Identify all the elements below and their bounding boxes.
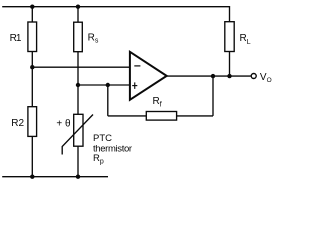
wire thermistor bottom lead to ground rail bbox=[77, 146, 79, 177]
label Rs bbox=[88, 33, 99, 45]
op-amp U1 bbox=[130, 52, 167, 100]
node junction output / feedback bbox=[211, 74, 215, 78]
svg-text:Rf: Rf bbox=[153, 96, 162, 109]
node junction output / RL bbox=[227, 74, 231, 78]
label R1 bbox=[10, 33, 22, 44]
resistor Rs bbox=[74, 22, 83, 52]
wire feedback riser from plus rail bbox=[107, 85, 109, 116]
wire ground rail bbox=[2, 176, 108, 178]
wire Rf right to feedback riser bbox=[177, 115, 213, 117]
svg-text:+ θ: + θ bbox=[56, 119, 71, 130]
node junction R1/R2 divider tap bbox=[30, 65, 34, 69]
thermistor Rp diagonal stroke bbox=[62, 115, 93, 155]
resistor Rf bbox=[146, 112, 176, 121]
node junction feedback on plus rail bbox=[106, 83, 110, 87]
resistor R1 bbox=[28, 22, 37, 52]
wire op-amp output to terminal bbox=[167, 75, 251, 77]
wire top supply rail bbox=[2, 7, 229, 22]
svg-text:PTC: PTC bbox=[93, 133, 112, 144]
resistor RL bbox=[225, 22, 234, 52]
node junction top rail / R1 bbox=[30, 5, 34, 9]
wire Rs top lead bbox=[77, 7, 79, 23]
wire feedback to Rf left bbox=[108, 115, 147, 117]
label Rf bbox=[153, 96, 162, 109]
label + theta bbox=[56, 119, 71, 130]
op-amp inverting input symbol - bbox=[134, 65, 140, 67]
wire feedback riser to output node bbox=[212, 76, 214, 116]
wire non-inverting input rail bbox=[78, 84, 130, 86]
wire RL bottom lead to output rail bbox=[229, 52, 231, 77]
svg-text:RL: RL bbox=[240, 33, 251, 46]
wire inverting input rail bbox=[32, 66, 130, 68]
label Rp bbox=[93, 153, 104, 165]
node junction Rs/Rp bridge tap bbox=[76, 83, 80, 87]
wire R1 top lead bbox=[31, 7, 33, 22]
node junction ground rail / R2 bbox=[30, 175, 34, 179]
wire R2 bottom lead to ground rail bbox=[31, 136, 33, 176]
svg-text:Rs: Rs bbox=[88, 33, 99, 45]
svg-text:R1: R1 bbox=[10, 33, 22, 44]
thermistor Rp body bbox=[74, 114, 83, 146]
node junction ground rail / Rp bbox=[76, 175, 80, 179]
svg-text:Rp: Rp bbox=[93, 153, 104, 165]
node junction top rail / Rs bbox=[76, 5, 80, 9]
resistor R2 bbox=[28, 107, 37, 137]
svg-text:R2: R2 bbox=[11, 118, 24, 129]
svg-text:VO: VO bbox=[260, 72, 272, 84]
label PTC thermistor bbox=[93, 133, 132, 154]
wire Rs bottom to thermistor top bbox=[77, 52, 79, 115]
label Vo bbox=[260, 72, 272, 84]
wire R1 bottom to R2 top bbox=[31, 52, 33, 107]
terminal Vo open circle bbox=[251, 74, 256, 79]
label R2 bbox=[11, 118, 24, 129]
op-amp non-inverting input symbol + bbox=[132, 82, 137, 89]
label RL bbox=[240, 33, 251, 46]
